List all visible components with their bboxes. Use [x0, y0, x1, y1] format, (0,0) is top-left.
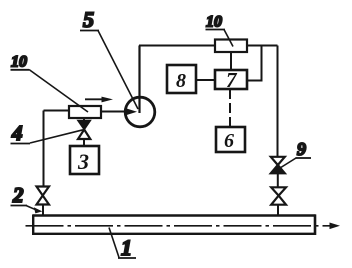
box 3 [70, 146, 99, 174]
label 4 [11, 121, 84, 145]
pipe 1 top wall [33, 214, 316, 216]
wire top run from circle to orifice 10 (right) [139, 45, 215, 47]
svg-text:5: 5 [83, 7, 94, 32]
sensor circle 5 [125, 97, 155, 127]
wire valve2 to pipe [42, 205, 44, 216]
svg-text:1: 1 [121, 235, 132, 260]
box 7 [215, 70, 247, 89]
svg-text:4: 4 [11, 121, 23, 145]
pipe 1 bottom wall [33, 233, 316, 235]
flow direction arrow above orifice [85, 98, 105, 100]
label 5 [80, 7, 138, 109]
wire between valves 9 [277, 173, 279, 187]
svg-text:6: 6 [224, 130, 234, 152]
wire box 8 to box 7 [196, 79, 215, 81]
wire from circle center up to top run [138, 46, 140, 114]
pipe 1 flow arrowhead [330, 223, 341, 230]
label 9 [280, 139, 311, 168]
svg-text:2: 2 [12, 183, 24, 207]
valve 2 [37, 187, 50, 205]
box 6 [216, 127, 245, 152]
pipe 1 right cap [314, 214, 317, 235]
wire valve 4 to box 3 [83, 139, 85, 146]
orifice device 10 (left) [69, 106, 101, 118]
down run wire to valve 9 [277, 46, 279, 158]
valve 9 (upper) [271, 157, 285, 174]
label 10 (right) [206, 14, 234, 47]
wire orifice to sensor 5 with arrowhead [101, 111, 130, 113]
wire lower valve to pipe [277, 205, 279, 216]
wire orifice10R bottom to box 7 top [230, 52, 232, 70]
label 10 (left) [11, 54, 89, 113]
svg-text:10: 10 [206, 14, 222, 31]
box 8 [167, 65, 196, 93]
dashed wire box 7 to box 6 [229, 89, 231, 127]
wire orifice10R right toward down run [247, 45, 278, 47]
orifice device 10 (right) [215, 40, 247, 53]
wire bracket horizontal to orifice 10 left [44, 110, 70, 112]
svg-text:3: 3 [77, 149, 89, 174]
wire valve2 up to impulse line bracket [43, 111, 45, 187]
pipe 1 left cap [32, 214, 34, 235]
label 2 [11, 183, 43, 213]
label 1 [109, 228, 136, 261]
pipe 1 axis centerline [26, 225, 332, 227]
branch wire down to box 7 right side [247, 46, 262, 81]
svg-text:10: 10 [11, 54, 27, 71]
valve 4 [78, 121, 90, 140]
svg-text:8: 8 [176, 70, 186, 92]
wire orifice bottom to valve 4 [83, 118, 85, 121]
svg-text:7: 7 [226, 68, 238, 92]
valve 9 (lower) [271, 187, 286, 204]
svg-text:9: 9 [297, 139, 306, 159]
